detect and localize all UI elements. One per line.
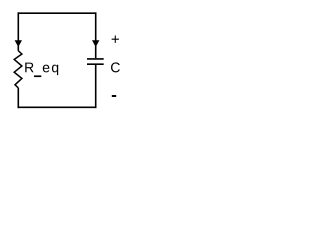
label R_eq underscore (34, 75, 41, 77)
label R_eq (25, 63, 58, 76)
capacitor C bottom plate (87, 63, 104, 65)
resistor R_eq (14, 51, 22, 88)
wire bottom (18, 106, 97, 108)
current arrow left (15, 40, 22, 47)
label C (111, 62, 120, 72)
wire top (18, 12, 97, 14)
label minus (112, 95, 116, 97)
wire right lower (95, 64, 97, 108)
current arrow right (92, 40, 99, 47)
wire right upper (95, 12, 97, 58)
label plus (112, 36, 119, 43)
capacitor C top plate (87, 58, 104, 60)
wire left upper (17, 12, 19, 50)
wire left lower (17, 88, 19, 108)
